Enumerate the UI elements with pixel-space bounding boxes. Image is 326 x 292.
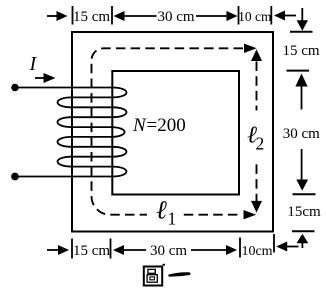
core window (inner boundary) [112,71,239,195]
svg-text:2: 2 [256,134,265,154]
l2 arrowhead down [251,201,262,213]
svg-text:30 cm: 30 cm [150,243,187,259]
svg-text:15 cm: 15 cm [73,9,110,25]
coil crossing line 7 [71,156,114,158]
coil left bulge 2 [58,117,72,127]
svg-text:10 cm: 10 cm [238,9,272,24]
bottom dimension arrow 2 (points left) [113,245,146,255]
coil left bulge 3 [57,137,71,147]
right dimension label 30 cm [283,126,320,142]
svg-text:15 cm: 15 cm [282,43,319,59]
white mask for label l2 [246,111,267,160]
svg-text:15 cm: 15 cm [73,243,110,259]
terminal dot top [11,84,19,92]
top dimension label 10 cm [238,9,272,24]
top dimension arrow 2 (points left) [114,11,157,21]
current arrow [35,73,56,83]
top dimension tick 1 [72,6,74,25]
svg-text:30 cm: 30 cm [283,126,320,142]
top dimension arrow 3 (points right) [196,11,238,21]
bottom dimension arrow 4 (points left) [276,242,298,252]
top dimension arrow 1 (points right) [47,11,68,21]
bottom dimension label 15 cm [73,243,110,259]
right dimension bar 1 [290,31,313,33]
right dimension bar 3 [293,193,316,195]
bottom dimension tick 2 [110,239,112,259]
coil wire bottom lead (to terminal, line 9) [15,176,114,178]
flux path l1 (dashed loop: top, left, bottom) [91,48,243,214]
white mask for label l1 [147,200,179,225]
top dimension label 30 cm [157,9,194,25]
flux arrowhead top (points right) [244,44,257,53]
coil crossing line 3 [71,116,114,118]
coil right bulge 5 [113,167,126,177]
coil right bulge 3 [113,127,125,137]
svg-text:30 cm: 30 cm [157,9,194,25]
coil crossing line 5 [71,136,114,138]
label N=200 [132,115,186,136]
coil right bulge 1 [113,88,127,98]
svg-text:N: N [132,115,147,136]
svg-text:I: I [29,53,38,75]
bottom dimension tick 3 [239,238,241,258]
l2 arrowhead up [251,49,262,61]
right dimension arrow top (points down) [297,8,308,31]
svg-text:1: 1 [168,209,177,229]
flux arrowhead bottom (points right) [244,210,257,219]
coil crossing line 8 [71,166,114,168]
coil left bulge 4 [57,157,71,167]
svg-text:10cm: 10cm [241,244,272,259]
bottom dimension tick 4 [273,234,275,253]
bottom dimension tick 1 [71,239,73,259]
label l2 [247,123,264,154]
right dimension bar 2 [287,70,310,72]
svg-text:ℓ: ℓ [156,196,167,225]
coil wire top lead (from terminal, line 0) [15,87,114,89]
bottom dimension label 30 cm [150,243,187,259]
right dimension label 15cm [287,204,321,220]
svg-text:=200: =200 [147,115,186,136]
coil right bulge 2 [113,107,127,117]
coil left bulge 1 [58,97,72,107]
bottom dimension label 10 cm [241,244,272,259]
bottom dimension arrow 3 (points right) [191,245,237,255]
coil crossing line 1 [71,96,114,98]
caption glyph tu (figure) [144,265,165,286]
caption glyph yi (one) [168,272,190,276]
flux path l2 (dashed vertical, right leg) [256,62,258,202]
top dimension tick 4 [270,6,272,25]
bottom dimension arrow 1 (points right) [47,245,69,255]
right dimension arrow (points up) [295,74,307,110]
current label I [29,53,38,75]
top dimension tick 3 [238,6,240,25]
top dimension arrow 4 (points left) [274,11,296,21]
terminal dot bottom [11,173,19,181]
right dimension bar 4 [292,230,315,232]
top dimension label 15 cm [73,9,110,25]
right dimension arrow (points down) [296,149,308,191]
top dimension tick 2 [111,6,113,25]
coil crossing line 2 [71,106,114,108]
right dimension label 15 cm [282,43,319,59]
right dimension arrow bottom (points up) [297,234,309,248]
svg-text:15cm: 15cm [287,204,321,220]
coil crossing line 6 [71,146,114,148]
coil right bulge 4 [113,147,126,157]
coil crossing line 4 [71,126,114,128]
core outer boundary [72,32,273,232]
label l1 [156,196,176,229]
